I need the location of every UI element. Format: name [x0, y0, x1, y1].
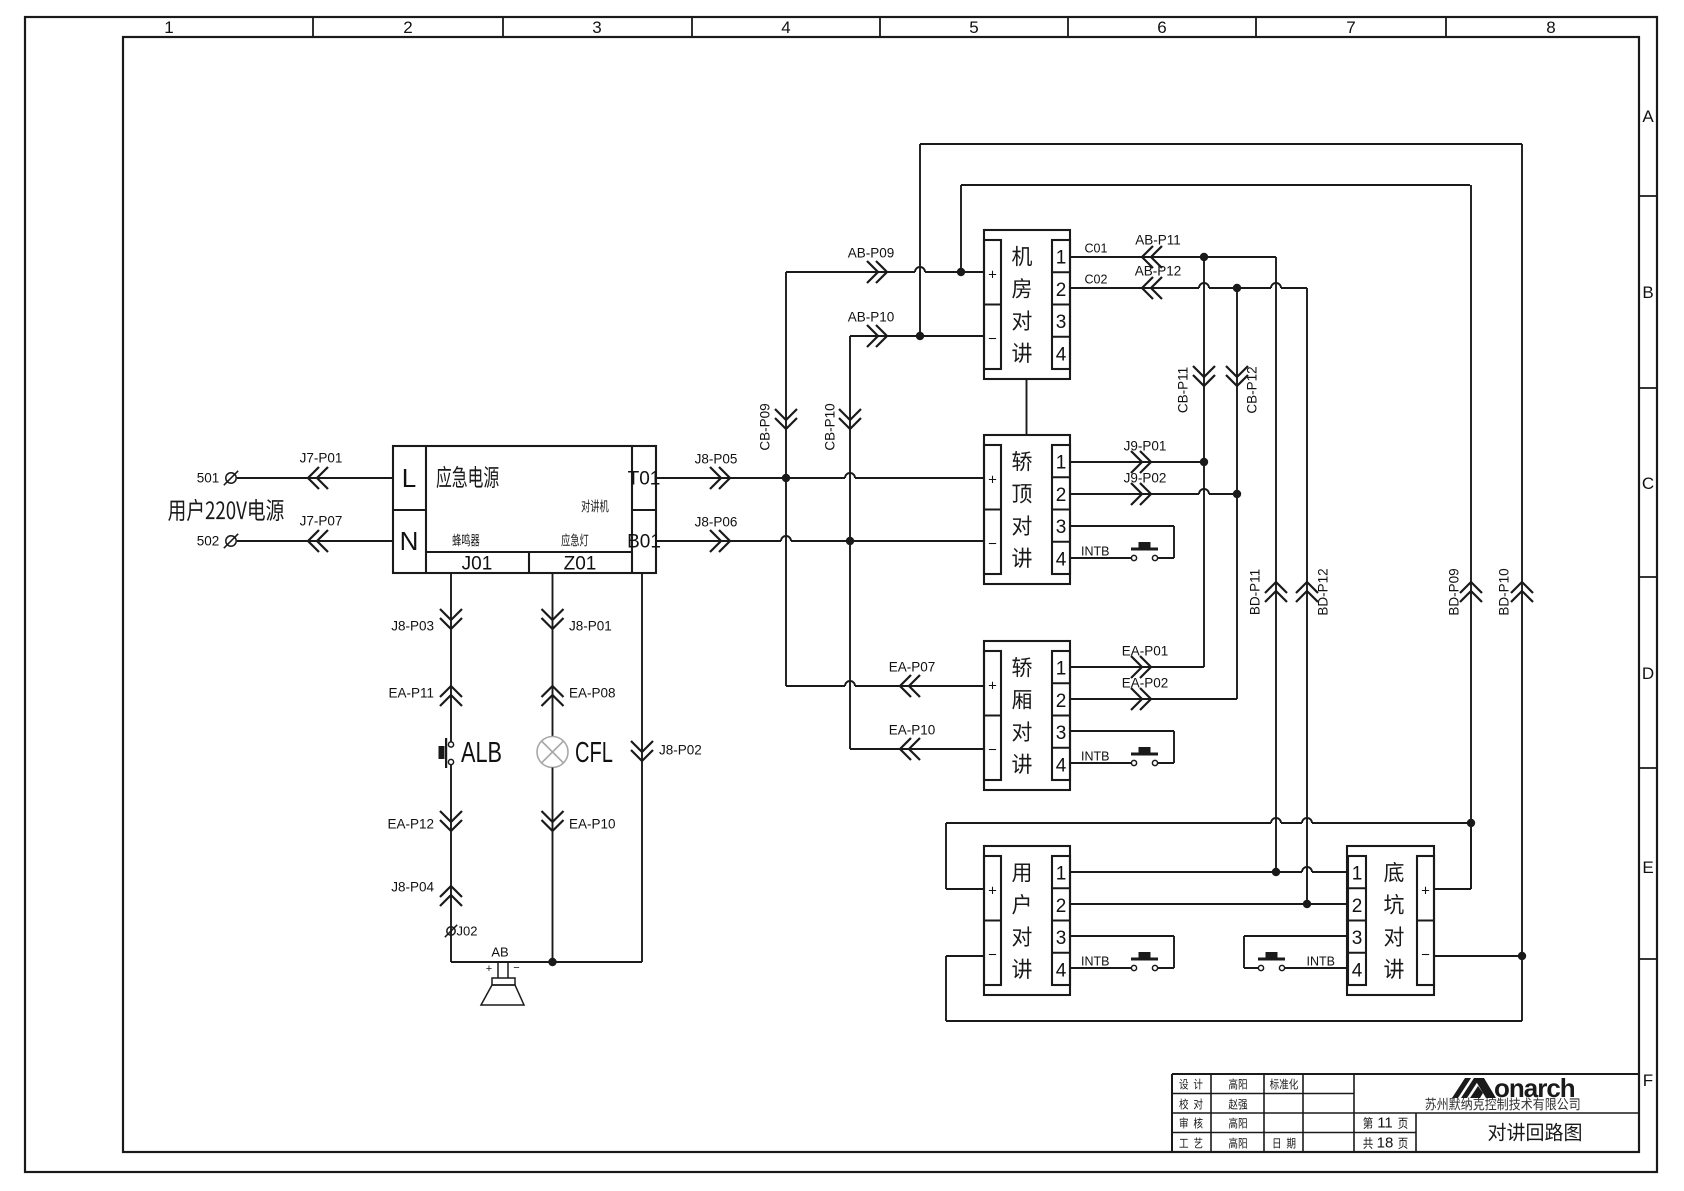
- wire riser CB-P10: [823, 336, 861, 749]
- wire 501 to L with connector J7-P01: [237, 451, 393, 489]
- svg-text:−: −: [988, 741, 997, 758]
- svg-text:B: B: [1642, 283, 1653, 302]
- terminal 501: [197, 471, 238, 486]
- car top intercom U3 轿顶对讲: [984, 435, 1070, 584]
- wire riser CB-P09: [758, 272, 797, 686]
- wire U5 pin4 to INTB: [1070, 967, 1132, 969]
- svg-text:AB-P12: AB-P12: [1135, 264, 1182, 279]
- svg-text:N: N: [400, 526, 419, 556]
- svg-text:4: 4: [1056, 755, 1067, 776]
- svg-text:1: 1: [1056, 453, 1067, 474]
- svg-text:INTB: INTB: [1081, 954, 1109, 968]
- emergency power supply U1 应急电源 (intercom base station): [393, 446, 661, 575]
- node B01/CB-P10 junction: [846, 537, 854, 545]
- svg-text:BD-P09: BD-P09: [1447, 568, 1462, 615]
- push button INTB (car top): [1081, 542, 1158, 561]
- svg-text:1: 1: [1056, 864, 1067, 885]
- svg-text:J02: J02: [457, 924, 478, 939]
- svg-text:1: 1: [1056, 659, 1067, 680]
- push button INTB (user): [1081, 952, 1158, 971]
- wire EA-P01 from U4 pin1: [1070, 644, 1204, 678]
- wire AB-P09 to U2 +: [786, 246, 984, 283]
- wire J01 branch upper: [388, 573, 462, 742]
- svg-text:18: 18: [1377, 1134, 1394, 1151]
- wire 502 to N with connector J7-P07: [237, 514, 393, 552]
- svg-text:C01: C01: [1085, 241, 1108, 255]
- svg-text:CB-P12: CB-P12: [1245, 366, 1260, 413]
- wire EA-P10 to U4 -: [850, 723, 984, 760]
- svg-text:+: +: [988, 266, 997, 283]
- svg-text:onarch: onarch: [1494, 1073, 1575, 1103]
- wire T01 net with connector J8-P05: [656, 452, 984, 489]
- svg-text:+: +: [988, 471, 997, 488]
- node AB-P10 junction: [916, 332, 924, 340]
- svg-text:D: D: [1642, 664, 1654, 683]
- node AB-P12/CB-P12 junction: [1233, 284, 1241, 292]
- node + bus / BD-P09 junction: [1467, 819, 1475, 827]
- wire C01 / AB-P11 from U2 pin1: [1070, 233, 1276, 268]
- push button ALB: [439, 737, 503, 769]
- wire riser CB-P12: [1226, 288, 1260, 699]
- machine room intercom U2 机房对讲: [984, 230, 1070, 379]
- wire U6 pin4 to INTB: [1285, 967, 1348, 969]
- wire Z01 branch upper: [542, 573, 616, 737]
- svg-text:7: 7: [1346, 18, 1355, 37]
- svg-text:+: +: [988, 677, 997, 694]
- wire B01 net with connector J8-P06: [656, 515, 984, 552]
- wire riser BD-P11: [1248, 257, 1287, 872]
- svg-text:EA-P08: EA-P08: [569, 686, 616, 701]
- svg-text:3: 3: [1352, 928, 1363, 949]
- Monarch logo: [1452, 1073, 1575, 1103]
- svg-text:3: 3: [1056, 928, 1067, 949]
- wire second bus: [961, 184, 1470, 186]
- svg-text:+: +: [486, 963, 492, 975]
- svg-text:−: −: [988, 535, 997, 552]
- node J9-P01/CB-P11 junction: [1200, 458, 1208, 466]
- svg-text:1: 1: [1352, 864, 1363, 885]
- svg-text:2: 2: [1056, 691, 1067, 712]
- wire U4 pin3 to INTB: [1070, 731, 1174, 763]
- user intercom U5 用户对讲: [984, 846, 1070, 995]
- push button INTB (car): [1081, 747, 1158, 766]
- push button INTB (pit): [1258, 952, 1335, 971]
- wire AB-P10 to U2 -: [848, 310, 984, 347]
- svg-text:−: −: [988, 330, 997, 347]
- svg-text:J7-P07: J7-P07: [300, 514, 343, 529]
- node AB-P09 junction: [957, 268, 965, 276]
- svg-text:C: C: [1642, 474, 1654, 493]
- svg-text:L: L: [402, 463, 416, 493]
- svg-text:+: +: [1421, 882, 1430, 899]
- svg-text:J8-P02: J8-P02: [659, 743, 702, 758]
- wire - loop user to pit: [946, 956, 1522, 1021]
- wire U3 pin3 to INTB: [1070, 526, 1174, 558]
- svg-text:BD-P11: BD-P11: [1248, 569, 1263, 615]
- svg-text:3: 3: [1056, 312, 1067, 333]
- svg-text:INTB: INTB: [1081, 544, 1109, 558]
- svg-text:CB-P09: CB-P09: [758, 403, 773, 450]
- svg-text:4: 4: [1056, 960, 1067, 981]
- wire riser to second bus (from AB-P09 node): [960, 185, 962, 272]
- wire U4 pin4 to INTB: [1070, 762, 1132, 764]
- svg-text:J7-P01: J7-P01: [300, 451, 343, 466]
- svg-text:J8-P03: J8-P03: [391, 619, 434, 634]
- svg-text:−: −: [988, 946, 997, 963]
- svg-text:AB-P09: AB-P09: [848, 246, 895, 261]
- node T01/CB-P09 junction: [782, 474, 790, 482]
- svg-text:−: −: [1421, 946, 1430, 963]
- wire top bus: [920, 143, 1522, 145]
- terminal J02: [445, 924, 478, 939]
- wire J01 branch lower: [387, 765, 462, 962]
- svg-text:5: 5: [969, 18, 978, 37]
- terminal 502: [197, 534, 238, 549]
- svg-text:3: 3: [1056, 723, 1067, 744]
- svg-text:502: 502: [197, 534, 220, 549]
- svg-text:BD-P10: BD-P10: [1497, 568, 1512, 615]
- svg-text:J9-P02: J9-P02: [1124, 471, 1167, 486]
- wire Z01 branch lower: [542, 768, 616, 963]
- node AB-P11/CB-P11 junction: [1200, 253, 1208, 261]
- svg-text:8: 8: [1546, 18, 1555, 37]
- svg-text:4: 4: [1352, 960, 1363, 981]
- node pin1/BD-P11 junction: [1272, 868, 1280, 876]
- svg-text:+: +: [988, 882, 997, 899]
- wire riser to top bus (from AB-P10 node): [919, 144, 921, 336]
- svg-text:J8-P06: J8-P06: [695, 515, 738, 530]
- svg-text:CB-P11: CB-P11: [1176, 367, 1191, 413]
- svg-text:11: 11: [1377, 1114, 1393, 1131]
- label 用户220V电源: [168, 499, 283, 521]
- wire riser BD-P09: [1447, 185, 1482, 889]
- svg-text:A: A: [1642, 107, 1654, 126]
- svg-text:ALB: ALB: [461, 737, 502, 769]
- svg-text:1: 1: [1056, 248, 1067, 269]
- wire + bus to user intercom: [946, 818, 1471, 889]
- svg-text:3: 3: [1056, 517, 1067, 538]
- wire riser BD-P12: [1296, 288, 1331, 904]
- wire U5 pin3 to INTB: [1070, 936, 1174, 968]
- pit intercom U6 底坑对讲: [1347, 846, 1434, 995]
- node J9-P02/CB-P12 junction: [1233, 490, 1241, 498]
- svg-text:2: 2: [1056, 280, 1067, 301]
- wire U5 pin2 to U6 pin2: [1070, 903, 1347, 905]
- node pin2/BD-P12 junction: [1303, 900, 1311, 908]
- svg-text:INTB: INTB: [1307, 954, 1335, 968]
- wire U3 pin4 to INTB: [1070, 557, 1132, 559]
- svg-text:BD-P12: BD-P12: [1316, 568, 1331, 615]
- node - loop / BD-P10 junction: [1518, 952, 1526, 960]
- svg-text:3: 3: [592, 18, 601, 37]
- svg-text:J01: J01: [462, 554, 493, 575]
- svg-text:4: 4: [1056, 549, 1067, 570]
- svg-text:EA-P02: EA-P02: [1122, 676, 1169, 691]
- svg-text:EA-P10: EA-P10: [889, 723, 936, 738]
- wire BD-P09 to pit +: [1434, 823, 1471, 889]
- svg-text:2: 2: [1056, 896, 1067, 917]
- svg-text:6: 6: [1157, 18, 1166, 37]
- wire speaker bottom: [451, 961, 642, 963]
- svg-text:EA-P10: EA-P10: [569, 817, 616, 832]
- svg-text:J8-P04: J8-P04: [391, 880, 434, 895]
- wire C02 / AB-P12 from U2 pin2: [1070, 264, 1307, 299]
- wire EA-P02 from U4 pin2: [1070, 676, 1237, 710]
- svg-text:501: 501: [197, 471, 220, 486]
- svg-text:INTB: INTB: [1081, 749, 1109, 763]
- svg-text:CB-P10: CB-P10: [823, 403, 838, 450]
- svg-text:1: 1: [164, 18, 173, 37]
- svg-text:2: 2: [403, 18, 412, 37]
- wire U5 pin1 to U6 pin1: [1070, 867, 1347, 872]
- svg-text:−: −: [513, 962, 519, 974]
- wire B01 branch: [631, 573, 702, 962]
- wire riser CB-P11: [1176, 257, 1215, 667]
- svg-text:J8-P01: J8-P01: [569, 619, 612, 634]
- wire riser BD-P10: [1497, 144, 1533, 1021]
- svg-text:EA-P01: EA-P01: [1122, 644, 1169, 659]
- svg-text:4: 4: [781, 18, 790, 37]
- svg-text:4: 4: [1056, 344, 1067, 365]
- svg-text:J9-P01: J9-P01: [1124, 439, 1167, 454]
- svg-text:Z01: Z01: [564, 554, 597, 575]
- title block with sheet info: [1172, 1074, 1639, 1152]
- node speaker junction: [548, 958, 556, 966]
- svg-text:AB: AB: [491, 945, 508, 960]
- speaker AB 扬声器: [481, 945, 524, 1005]
- svg-text:EA-P11: EA-P11: [388, 686, 434, 701]
- svg-text:T01: T01: [628, 469, 661, 490]
- wire EA-P07 to U4 +: [786, 660, 984, 697]
- svg-text:AB-P10: AB-P10: [848, 310, 895, 325]
- svg-text:C02: C02: [1085, 272, 1108, 286]
- svg-text:F: F: [1643, 1071, 1653, 1090]
- svg-text:B01: B01: [627, 532, 661, 553]
- car intercom U4 轿厢对讲: [984, 641, 1070, 790]
- svg-text:2: 2: [1352, 896, 1363, 917]
- wire U2 to U3: [1026, 379, 1028, 435]
- lamp CFL 应急灯: [537, 737, 613, 770]
- svg-text:EA-P07: EA-P07: [889, 660, 936, 675]
- svg-text:AB-P11: AB-P11: [1135, 233, 1181, 248]
- wire J9-P01 from U3 pin1: [1070, 439, 1204, 473]
- svg-text:CFL: CFL: [575, 737, 613, 769]
- svg-text:E: E: [1642, 858, 1653, 877]
- svg-text:EA-P12: EA-P12: [387, 817, 434, 832]
- svg-text:J8-P05: J8-P05: [695, 452, 738, 467]
- wire J9-P02 from U3 pin2: [1070, 471, 1237, 505]
- wire U6 pin3 to INTB: [1244, 936, 1347, 968]
- svg-text:2: 2: [1056, 485, 1067, 506]
